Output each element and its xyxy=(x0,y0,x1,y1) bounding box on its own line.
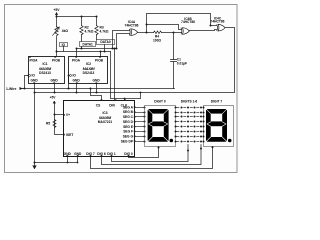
wire riser from R4 node to top feedback line xyxy=(147,14,217,33)
svg-text:74HCT86: 74HCT86 xyxy=(181,20,195,24)
wire riser to IC4A lower input xyxy=(117,34,130,49)
svg-text:SEG C: SEG C xyxy=(123,115,134,119)
svg-text:74HCT86: 74HCT86 xyxy=(125,23,139,27)
display bottom pins and dots xyxy=(158,146,214,151)
wire R2 bottom lead to DATA1 xyxy=(81,35,83,42)
wire +5V to V+ MAX7221 xyxy=(55,102,64,135)
wire IC4A output to R4 xyxy=(138,32,154,34)
svg-text:PIOA: PIOA xyxy=(30,59,39,63)
resistor R3 xyxy=(95,26,98,35)
wire IO pin IC2 drop xyxy=(68,76,70,89)
wire +5V rail xyxy=(57,16,98,18)
svg-text:4.7kΩ: 4.7kΩ xyxy=(100,30,109,34)
node IO flag xyxy=(60,43,68,47)
ground symbol xyxy=(33,166,37,169)
wire DIG1 to digits1-6 left pin xyxy=(112,145,189,162)
svg-text:V+: V+ xyxy=(66,113,70,117)
svg-text:DIGITS 1-6: DIGITS 1-6 xyxy=(181,99,198,103)
svg-text:+5V: +5V xyxy=(50,96,57,100)
op-amp gate IC4C 74HCT86 xyxy=(211,17,226,32)
wire DIN net: PIOA IC2 up and across to DIN xyxy=(77,49,117,100)
svg-text:4.7kΩ: 4.7kΩ xyxy=(85,30,94,34)
node DATA1 flag xyxy=(80,42,96,47)
wire IO pin IC1 drop xyxy=(25,76,29,89)
7-seg digit 7 glyph xyxy=(206,109,232,142)
svg-text:SEG E: SEG E xyxy=(123,125,134,129)
svg-text:SEG B: SEG B xyxy=(123,110,134,114)
resistor R1 xyxy=(55,27,58,36)
wire SEG lines from IC3 to digit 0 xyxy=(135,108,145,142)
wire R1 bottom lead xyxy=(56,37,58,57)
IC1 DS2413 xyxy=(29,56,65,84)
svg-text:GND: GND xyxy=(31,79,39,83)
IC2 DS2413 xyxy=(69,56,108,84)
svg-text:DS2413: DS2413 xyxy=(83,71,95,75)
wire R1 top lead xyxy=(56,17,58,27)
svg-text:IO: IO xyxy=(73,74,77,78)
wire DATA0 drop to CLK net xyxy=(104,45,106,52)
svg-text:100Ω: 100Ω xyxy=(153,38,161,42)
svg-text:ISET: ISET xyxy=(66,133,73,137)
IC3 MAX7221 xyxy=(63,99,135,156)
node DATA0 flag xyxy=(97,40,115,45)
svg-text:4kΩ: 4kΩ xyxy=(62,29,69,33)
wire R3 bottom lead xyxy=(96,35,98,40)
svg-text:SEG G: SEG G xyxy=(123,135,134,139)
svg-text:DIGIT 0: DIGIT 0 xyxy=(154,99,166,103)
display DIGIT 0 xyxy=(145,99,176,146)
wire riser to IC4A upper input xyxy=(113,31,130,49)
wire CLK net: PIOB IC2 up and across xyxy=(101,52,141,100)
svg-text:SEG D: SEG D xyxy=(123,120,134,124)
node seg dots on digit0 left edge xyxy=(144,107,146,143)
op-amp gate IC4B 74HCT86 xyxy=(181,17,195,35)
wire R2 top lead xyxy=(81,17,83,26)
wire IC4B out to IC4C input xyxy=(190,30,217,31)
svg-text:DIGIT 7: DIGIT 7 xyxy=(211,99,223,103)
svg-text:PIOA: PIOA xyxy=(72,59,81,63)
wire gnd bus segment xyxy=(35,92,97,94)
wire IC2 gnd pins xyxy=(77,84,97,93)
svg-text:GND: GND xyxy=(73,79,81,83)
wire bottom gnd bus to IC3 gnd pins xyxy=(35,156,78,163)
svg-text:GND: GND xyxy=(51,79,59,83)
svg-text:IO: IO xyxy=(32,74,36,78)
resistor R4 xyxy=(154,31,162,34)
resistor R5 xyxy=(53,120,56,128)
svg-text:PIOB: PIOB xyxy=(52,59,61,63)
svg-text:SEG A: SEG A xyxy=(123,105,134,109)
svg-text:74HCT86: 74HCT86 xyxy=(211,20,225,24)
svg-text:DIN: DIN xyxy=(109,103,115,107)
wire DIG0 to digit0 xyxy=(129,147,159,158)
node 1-Wire flag xyxy=(6,87,25,91)
wire gnd bus drop to bottom xyxy=(34,93,36,167)
wire DATA1 to bus xyxy=(81,47,83,49)
svg-text:DATA1: DATA1 xyxy=(83,43,94,47)
wire DIG6 to digits1-6 right pin xyxy=(102,145,202,165)
wire CS tap from bus xyxy=(91,89,102,100)
svg-text:SEG F: SEG F xyxy=(123,130,133,134)
svg-text:DATA0: DATA0 xyxy=(100,40,111,44)
node +5V top xyxy=(55,13,57,17)
wire PIOB IC1 net to IO flag xyxy=(57,47,111,52)
wire IC4C output down right side to feedback bus xyxy=(97,28,235,93)
7-seg digit 0 glyph xyxy=(148,109,174,142)
svg-text:R5: R5 xyxy=(46,121,50,125)
svg-text:SEG DP: SEG DP xyxy=(121,139,134,143)
svg-text:MAX7221: MAX7221 xyxy=(98,120,113,124)
svg-text:IO: IO xyxy=(62,43,66,47)
resistor R2 xyxy=(80,26,83,35)
pin squares xyxy=(101,99,103,101)
svg-text:DS2413: DS2413 xyxy=(39,71,51,75)
svg-text:PIOB: PIOB xyxy=(95,59,104,63)
op-amp gate IC4A 74HCT86 xyxy=(125,20,139,35)
svg-text:GND: GND xyxy=(93,79,101,83)
wire 1-wire bus xyxy=(21,88,175,90)
svg-text:+5V: +5V xyxy=(53,8,60,12)
border frame (decorative) xyxy=(5,5,238,173)
capacitor C1 xyxy=(171,33,177,89)
wire R3 top lead xyxy=(96,17,98,26)
wire DIG7 to digit7 xyxy=(91,147,213,169)
wire R4 to IC4B input xyxy=(162,32,182,34)
svg-text:0.01µF: 0.01µF xyxy=(177,62,187,66)
svg-text:1-Wire: 1-Wire xyxy=(6,87,16,91)
display DIGIT 7 xyxy=(204,99,234,146)
wire IC1 gnd pins xyxy=(35,84,55,93)
